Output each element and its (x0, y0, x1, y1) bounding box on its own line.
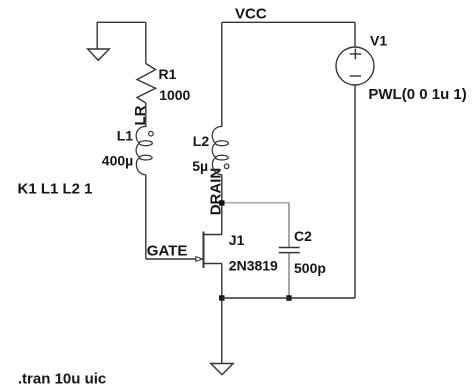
transistor J1 (N-JFET) (196, 232, 222, 269)
svg-text:VCC: VCC (235, 6, 267, 23)
wire gate horizontal (146, 258, 196, 260)
wire L2 to drain node (221, 175, 223, 204)
wire bottom rail (222, 297, 355, 299)
svg-text:GATE: GATE (147, 242, 188, 259)
phase dot L2 (224, 164, 229, 169)
wire drain node to JFET drain (221, 203, 223, 235)
svg-text:L2: L2 (193, 133, 210, 149)
wire C2 bottom lead (288, 253, 290, 298)
wire R1 to L1 (145, 103, 147, 127)
wire drain node to C2 (222, 202, 289, 204)
junction source node (219, 295, 224, 300)
wire L1 to gate corner (145, 175, 147, 260)
capacitor C2 (279, 248, 300, 253)
wire down to R1 (145, 22, 147, 63)
voltage source V1 (336, 47, 374, 85)
wire V1 top lead (354, 22, 356, 47)
junction C2-bottom node (286, 295, 291, 300)
svg-text:PWL(0 0 1u 1): PWL(0 0 1u 1) (368, 86, 466, 103)
svg-text:1000: 1000 (159, 87, 190, 103)
inductor L2 (212, 126, 228, 174)
svg-text:.tran 10u uic: .tran 10u uic (18, 370, 106, 387)
svg-text:500p: 500p (294, 260, 326, 276)
junction drain node (219, 200, 224, 205)
svg-text:V1: V1 (370, 32, 387, 48)
svg-text:2N3819: 2N3819 (229, 257, 278, 273)
svg-text:L1: L1 (117, 127, 134, 143)
wire top rail (222, 21, 355, 23)
ground (bottom) (211, 364, 234, 375)
wire VCC down to L2 (221, 22, 223, 127)
phase dot L1 (149, 131, 154, 136)
wire V1 bottom lead (354, 85, 356, 298)
svg-text:R1: R1 (159, 66, 177, 82)
svg-text:J1: J1 (229, 232, 245, 248)
ground (top-left) (88, 49, 110, 60)
svg-text:LR: LR (132, 105, 149, 125)
wire from ground up (96, 22, 98, 49)
svg-text:5µ: 5µ (192, 158, 208, 174)
resistor R1 (137, 64, 156, 104)
wire C2 top lead (288, 203, 290, 248)
wire source drop (221, 264, 223, 299)
wire to bottom ground (221, 298, 223, 363)
svg-text:400µ: 400µ (102, 152, 133, 168)
svg-text:C2: C2 (294, 228, 312, 244)
svg-text:K1 L1 L2 1: K1 L1 L2 1 (18, 180, 93, 197)
inductor L1 (136, 126, 152, 174)
wire top-left horizontal (97, 21, 146, 23)
